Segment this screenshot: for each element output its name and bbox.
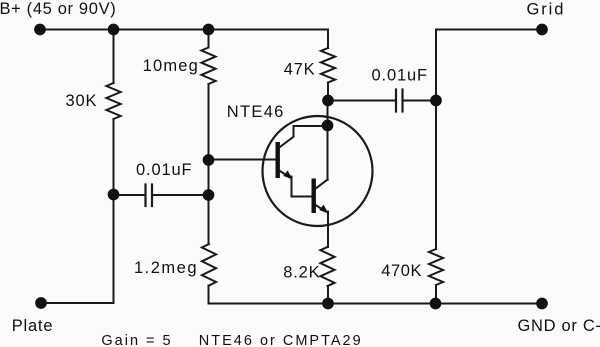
svg-text:Plate: Plate xyxy=(12,317,54,335)
svg-text:Grid: Grid xyxy=(527,1,566,19)
svg-text:47K: 47K xyxy=(284,61,316,79)
svg-text:10meg: 10meg xyxy=(143,57,199,75)
svg-text:B+ (45 or 90V): B+ (45 or 90V) xyxy=(0,0,116,18)
svg-text:0.01uF: 0.01uF xyxy=(372,67,428,85)
svg-text:30K: 30K xyxy=(66,92,98,110)
svg-text:NTE46: NTE46 xyxy=(227,103,285,121)
svg-text:8.2K: 8.2K xyxy=(283,263,320,281)
svg-text:Gain = 5: Gain = 5 xyxy=(101,333,172,347)
svg-text:NTE46 or CMPTA29: NTE46 or CMPTA29 xyxy=(199,333,363,347)
svg-text:0.01uF: 0.01uF xyxy=(136,161,192,179)
svg-text:470K: 470K xyxy=(381,262,422,280)
svg-text:1.2meg: 1.2meg xyxy=(134,259,198,277)
svg-text:GND or C-: GND or C- xyxy=(518,317,600,335)
